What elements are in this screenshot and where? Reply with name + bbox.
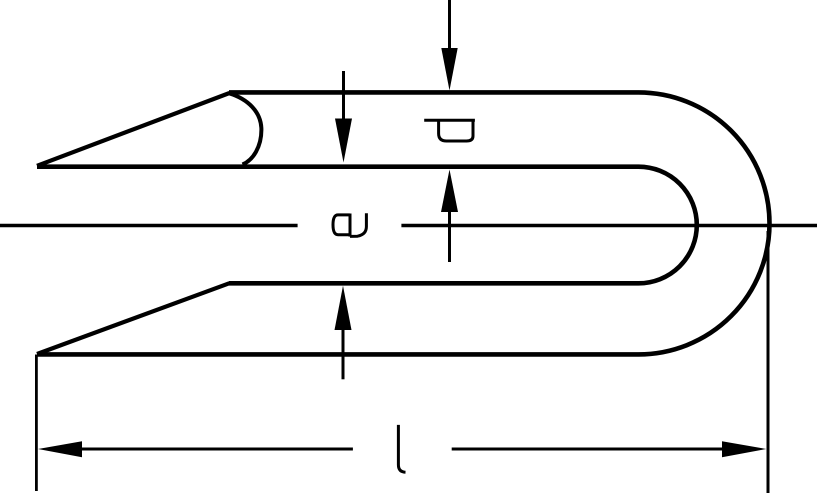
dimension e lower leader line [342,329,345,379]
dimension d upper leader line [448,0,451,50]
lower leg chisel point diagonal [37,283,230,354]
label d (rotated 90 CCW) bowl [439,120,473,141]
dimension d upper arrowhead (points down at top edge) [441,48,457,91]
label e (rotated 90 CCW) open bowl [350,213,366,236]
label d (rotated 90 CCW) stem [424,119,475,122]
dimension e lower arrowhead (points up at inner edge of lower leg) [335,286,352,330]
dimension l left extension line [35,355,38,492]
centerline right segment [401,224,817,227]
dimension d lower arrowhead (points up at bottom edge of upper leg) [441,170,458,213]
dimension l line right segment [452,448,723,451]
staple inner outline (bottom edge of upper leg, inner bend arc, top edge of lower leg) [37,167,697,284]
centerline left segment [0,224,298,227]
label l glyph [398,425,405,472]
upper leg chisel point diagonal [37,93,230,166]
dimension l left arrowhead (points left) [38,441,82,457]
upper leg chisel face ellipse [229,93,262,164]
dimension e upper leader line [342,71,345,121]
label e (rotated 90 CCW) crossbar [349,214,352,237]
dimension l right extension line [767,231,770,493]
dimension e upper arrowhead (points down at inner edge of upper leg) [335,119,352,163]
dimension l right arrowhead (points right) [722,441,766,457]
label e (rotated 90 CCW) loop [333,215,350,235]
dimension l line left segment [80,448,353,451]
dimension d lower leader line [448,210,451,262]
staple outer outline (top edge of upper leg, outer bend arc, bottom edge of lower leg) [37,92,770,354]
